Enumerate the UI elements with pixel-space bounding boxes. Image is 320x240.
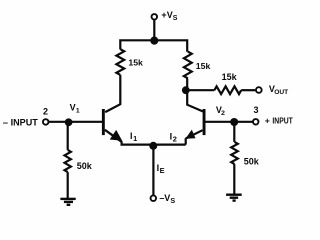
svg-text:–VS: –VS [159, 193, 175, 205]
svg-text:50k: 50k [77, 161, 93, 171]
wire Q2 collector [187, 92, 203, 112]
terminal -VS [151, 195, 157, 201]
ground (right) [226, 195, 242, 201]
node V1 junction [65, 118, 73, 126]
svg-text:+VS: +VS [161, 10, 177, 22]
node IE junction [149, 142, 157, 150]
wire Q1 base from V1 node [69, 121, 103, 123]
svg-text:IE: IE [157, 163, 165, 175]
svg-text:2: 2 [43, 107, 48, 117]
wire R1 bottom to Q1 collector [105, 75, 120, 112]
wire Q2 emitter to IE node [153, 144, 185, 146]
wire V2 node down to R4 [233, 123, 235, 142]
wire Q2 base to V2 node [206, 121, 235, 123]
resistor R5 15k (output series) [214, 86, 241, 94]
terminal 2 (-input) [43, 119, 49, 125]
svg-text:15k: 15k [196, 61, 211, 71]
terminal +VS [152, 14, 158, 20]
terminal VOUT [256, 87, 262, 93]
wire terminal 2 to V1 node [49, 121, 69, 123]
wire top rail [120, 40, 187, 52]
wire R5 to VOUT terminal [241, 89, 255, 91]
svg-text:I2: I2 [170, 131, 177, 143]
resistor R2 15k (right collector load) [184, 52, 192, 79]
svg-text:V2: V2 [216, 105, 225, 117]
svg-text:50k: 50k [244, 156, 260, 166]
svg-text:VOUT: VOUT [269, 84, 288, 96]
wire IE node to -VS terminal [152, 146, 154, 195]
node V2 junction [230, 118, 238, 126]
resistor R4 50k (right bias) [231, 142, 238, 164]
wire R2 bottom to Vout node [186, 78, 188, 90]
wire Vout node to R5 [186, 89, 214, 91]
resistor R3 50k (left bias) [65, 150, 71, 172]
wire V1 node down to R3 [67, 123, 69, 150]
wire R3 to ground [67, 172, 69, 199]
wire R4 to ground [233, 164, 235, 195]
node top-rail junction [150, 37, 158, 45]
svg-text:–INPUT: –INPUT [3, 117, 38, 128]
resistor R1 15k (left collector load) [116, 49, 124, 75]
svg-text:+INPUT: +INPUT [265, 116, 294, 126]
terminal 3 (+input) [253, 119, 259, 125]
ground (left) [60, 199, 75, 205]
svg-text:3: 3 [254, 105, 259, 115]
wire Q2 emitter corner [185, 138, 187, 144]
wire V2 node to terminal 3 [234, 121, 253, 123]
svg-text:I1: I1 [130, 131, 137, 143]
svg-text:15k: 15k [128, 57, 143, 67]
transistor Q2 [185, 109, 205, 139]
wire Q1 emitter to IE node [122, 141, 154, 144]
node Vout junction [182, 86, 190, 94]
wire +VS terminal to top rail [153, 20, 155, 41]
svg-text:15k: 15k [222, 72, 238, 82]
svg-text:V1: V1 [70, 103, 80, 115]
transistor Q1 [102, 109, 122, 142]
